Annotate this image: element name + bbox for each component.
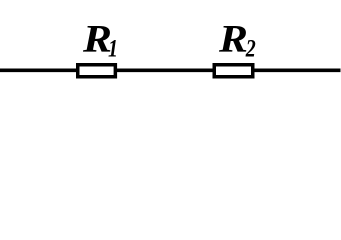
wire — [0, 69, 341, 73]
svg-text:2: 2 — [245, 34, 256, 62]
svg-text:1: 1 — [108, 34, 118, 62]
svg-text:R: R — [218, 16, 248, 60]
label R2 — [218, 16, 256, 62]
resistor R2 — [214, 65, 253, 77]
resistor R1 — [78, 65, 116, 77]
label R1 — [82, 16, 118, 62]
